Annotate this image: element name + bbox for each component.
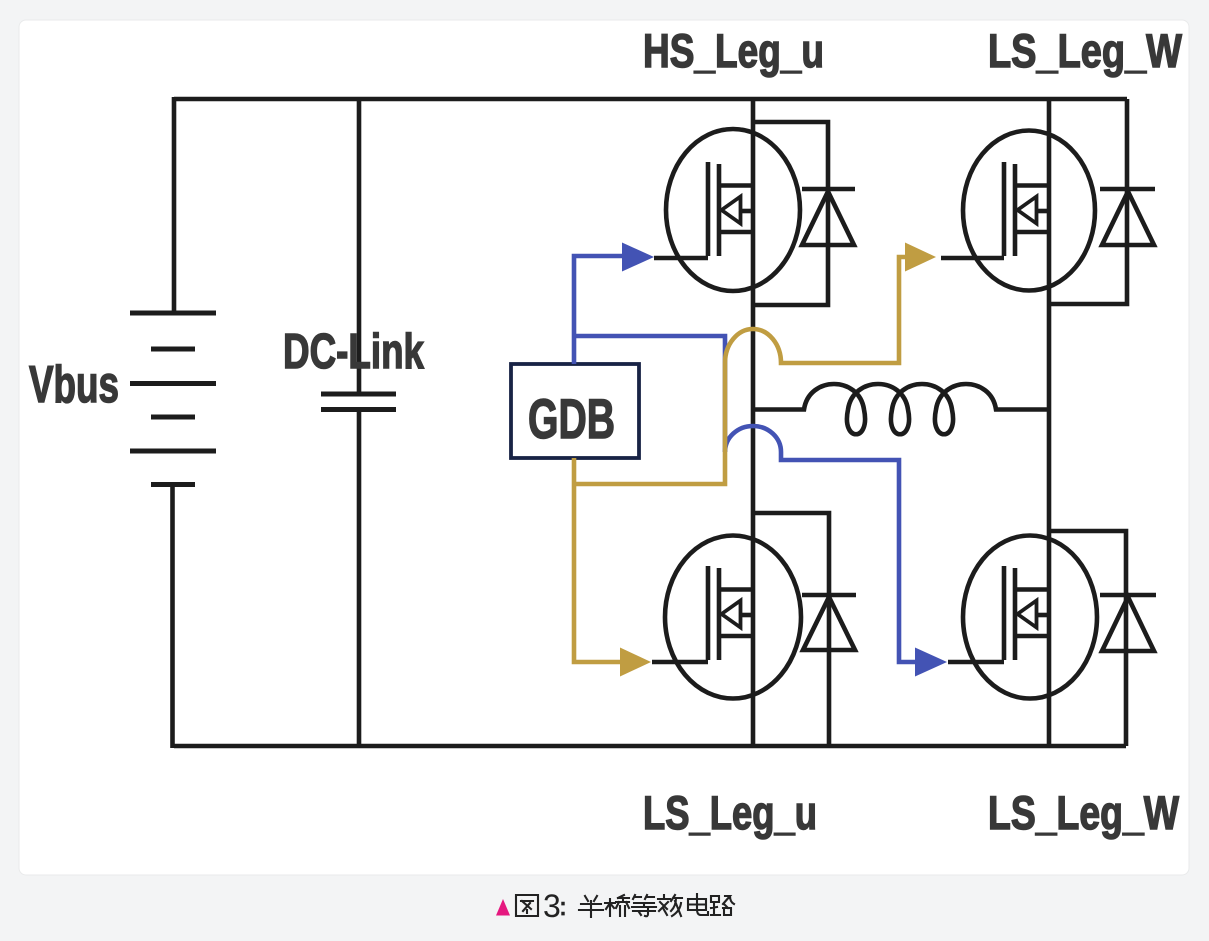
svg-text:Vbus: Vbus [29, 356, 119, 414]
inductor L1 [753, 384, 1049, 434]
wire gold gate drive to Q2 [574, 363, 725, 484]
arrowhead blue Q1 [622, 243, 654, 272]
glyph 等 [632, 895, 656, 916]
wire battery bottom [170, 484, 175, 748]
capacitor DC-Link plates [321, 394, 396, 410]
glyph 图 [516, 895, 538, 916]
svg-text:LS_Leg_u: LS_Leg_u [643, 787, 817, 840]
top rail [174, 97, 1127, 102]
wire gold gate drive to Q3 [574, 257, 905, 662]
transistor Q3 (LS_Leg_u MOSFET) [652, 536, 801, 699]
wire blue gate drive to Q4 [574, 336, 725, 452]
svg-text:HS_Leg_u: HS_Leg_u [643, 25, 824, 78]
glyph ： [561, 904, 564, 914]
battery Vbus plates [130, 313, 216, 485]
svg-text:GDB: GDB [528, 387, 615, 450]
svg-text:DC-Link: DC-Link [283, 325, 425, 379]
wire DC-link top [357, 99, 362, 392]
wire diode branch Q2 [1049, 99, 1127, 304]
diode D1 [802, 189, 855, 245]
transistor Q1 (HS_Leg_u MOSFET) [654, 129, 800, 291]
arrowhead gold Q3 [620, 648, 651, 677]
wire blue gate drive to Q1 [574, 256, 915, 662]
transistor Q4 (bottom LS_Leg_W MOSFET) [948, 536, 1097, 699]
wire diode branch Q4 [1049, 531, 1126, 746]
wire battery top [172, 97, 177, 311]
diode D4 [1100, 595, 1156, 651]
wire left leg [751, 99, 756, 746]
glyph 路 [711, 896, 734, 915]
glyph 效 [658, 895, 682, 916]
wire right leg [1047, 99, 1052, 746]
glyph 半 [579, 896, 603, 917]
GDB box U1 [511, 364, 639, 458]
wire diode branch Q1 [753, 122, 828, 305]
diode D3 [802, 595, 856, 650]
wire diode branch Q3 [753, 513, 829, 746]
diode D2 [1100, 189, 1155, 245]
arrowhead gold Q2 [905, 243, 936, 272]
caption text 图3：半桥等效电路 [516, 895, 538, 916]
glyph 桥 [605, 895, 629, 916]
arrowhead blue Q4 [915, 648, 947, 677]
wire DC-link bottom [357, 411, 362, 746]
glyph 电 [688, 894, 708, 915]
transistor Q2 (top LS_Leg_W MOSFET) [941, 131, 1095, 291]
svg-text:LS_Leg_W: LS_Leg_W [988, 787, 1179, 840]
bottom rail [174, 744, 1126, 749]
svg-text:3: 3 [543, 888, 561, 924]
svg-text:LS_Leg_W: LS_Leg_W [988, 25, 1182, 78]
caption marker triangle [496, 899, 510, 916]
